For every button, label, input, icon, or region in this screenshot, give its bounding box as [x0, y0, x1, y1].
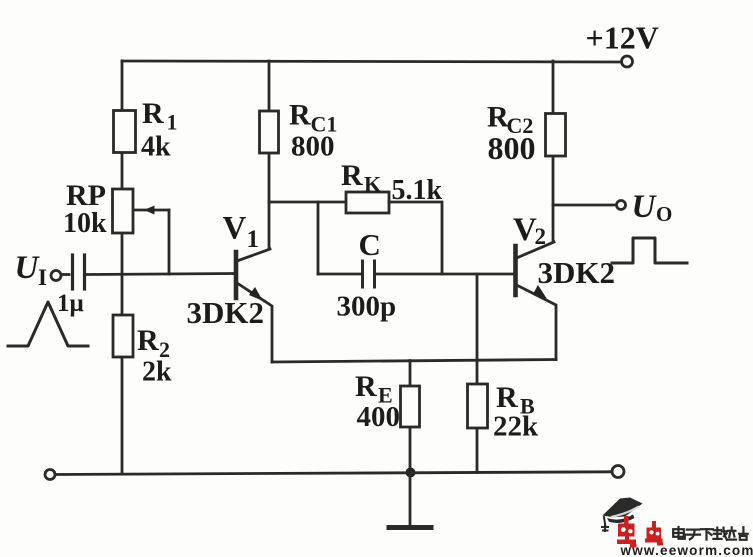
svg-text:22k: 22k — [493, 411, 539, 443]
capacitor C 300p — [361, 261, 364, 287]
svg-text:R: R — [355, 370, 377, 403]
svg-text:800: 800 — [488, 130, 536, 166]
svg-text:R: R — [142, 97, 164, 130]
wire emitter rail — [272, 360, 556, 363]
resistor R2 — [113, 315, 133, 357]
wire UO tap — [553, 204, 616, 207]
wire left branch vertical — [121, 61, 124, 474]
svg-text:www.eeworm.com: www.eeworm.com — [620, 543, 753, 557]
svg-text:2: 2 — [535, 224, 547, 249]
svg-text:2k: 2k — [142, 357, 172, 388]
resistor RB — [476, 274, 479, 473]
svg-text:R: R — [289, 99, 311, 132]
wire input to V1 base — [86, 274, 234, 275]
ground — [409, 472, 412, 525]
svg-text:800: 800 — [291, 131, 335, 163]
wire C to V2 base — [376, 273, 515, 276]
wire bottom rail — [54, 472, 612, 475]
svg-text:3DK2: 3DK2 — [187, 295, 265, 330]
output pulse waveform — [612, 238, 687, 263]
terminal UO — [617, 201, 626, 210]
terminal bottom-right — [612, 466, 624, 478]
transistor V1 — [234, 252, 239, 298]
watermark text chongchong — [617, 516, 663, 548]
wire RC1 / V1 collector vertical — [268, 61, 271, 249]
resistor RC2 — [546, 114, 566, 157]
transistor V2 — [513, 246, 518, 295]
svg-text:R: R — [341, 159, 363, 192]
watermark text dianzixiazaizhan — [673, 527, 747, 540]
wire top +12V rail — [122, 61, 621, 62]
terminal UI input — [51, 271, 61, 281]
svg-text:V: V — [513, 212, 537, 248]
svg-text:U: U — [632, 189, 658, 225]
svg-text:K: K — [364, 172, 381, 197]
resistor RE — [409, 361, 412, 474]
wire C branch left vertical — [317, 202, 320, 274]
svg-text:4k: 4k — [141, 132, 171, 163]
input triangle waveform — [8, 302, 88, 346]
svg-text:10k: 10k — [63, 208, 107, 239]
wiper arrow of RP — [134, 209, 169, 212]
resistor R1 — [114, 111, 136, 153]
wire RC2 / V2 collector vertical — [552, 61, 555, 242]
svg-text:I: I — [38, 265, 47, 290]
svg-text:U: U — [15, 250, 41, 286]
svg-text:400: 400 — [357, 401, 401, 433]
svg-text:V: V — [223, 211, 247, 247]
capacitor 1u — [62, 273, 69, 276]
wire RK left — [269, 201, 346, 204]
watermark logo graduation cap — [602, 498, 643, 532]
terminal bottom-left — [45, 470, 55, 480]
svg-text:R: R — [137, 324, 159, 357]
svg-text:C: C — [359, 227, 381, 262]
svg-text:300p: 300p — [337, 291, 397, 323]
svg-text:R: R — [496, 381, 518, 414]
wire RK right down to base node — [389, 202, 442, 274]
wire RP wiper to input node — [168, 210, 171, 274]
svg-text:3DK2: 3DK2 — [538, 255, 616, 290]
wire C branch left horizontal — [318, 273, 361, 276]
junction dot RE/ground — [406, 468, 416, 478]
potentiometer RP — [113, 189, 134, 233]
resistor RK — [346, 192, 389, 213]
svg-text:1μ: 1μ — [57, 290, 84, 317]
svg-text:O: O — [656, 202, 672, 226]
terminal +12V — [622, 56, 633, 67]
svg-text:+12V: +12V — [586, 20, 659, 56]
resistor RC1 — [260, 111, 279, 153]
svg-text:1: 1 — [247, 226, 260, 253]
